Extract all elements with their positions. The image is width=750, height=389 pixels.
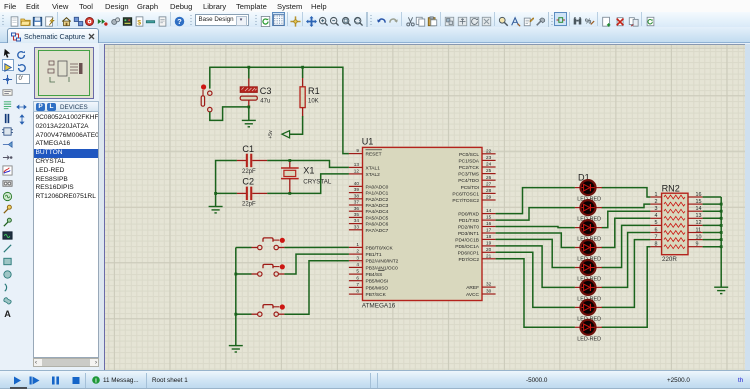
wire btn bus vertical: [235, 248, 237, 346]
tab bar: [0, 27, 750, 43]
svg-text:220R: 220R: [662, 256, 677, 263]
canvas right scrollbar: [745, 44, 750, 370]
LED D5 (LED-RED): [575, 260, 602, 275]
pin 25 PC3/TMS (right): [458, 168, 495, 177]
schematic drawing: [104, 44, 745, 369]
svg-text:32: 32: [486, 282, 492, 287]
pin 5 PB4/SS (left): [349, 269, 385, 278]
schematic canvas with grid: [104, 44, 745, 371]
svg-text:3: 3: [356, 255, 359, 260]
svg-text:16: 16: [696, 192, 702, 198]
wire D3-RN2.3: [602, 211, 651, 227]
pin 6 PB5/MOSI (left): [349, 275, 388, 284]
junction C3/button node: [247, 106, 250, 109]
wire D8-RN2.8: [602, 247, 651, 328]
LED D6 (LED-RED): [575, 280, 602, 295]
pin 38 PA2/ADC2 (left): [349, 193, 389, 202]
left panel background: [0, 44, 104, 370]
svg-text:23: 23: [486, 155, 492, 160]
wire PD5-D6: [496, 246, 575, 288]
pin 3 PB2/AIN0/INT2 (left): [349, 255, 399, 264]
svg-text:27: 27: [486, 181, 492, 186]
svg-text:PB6/MISO: PB6/MISO: [366, 285, 389, 291]
pin 19 PD5/OC1A (right): [455, 241, 495, 250]
svg-text:22pF: 22pF: [242, 169, 256, 175]
svg-text:?: ?: [177, 17, 182, 26]
pushbutton B3 (horizontal): [252, 304, 285, 316]
pin 24 PC2/TCK (right): [459, 162, 496, 171]
wire btn1 to PB0: [284, 246, 349, 248]
svg-text:AREF: AREF: [466, 285, 479, 291]
resistor R1 (10K): [300, 67, 305, 116]
sheet left edge: [104, 44, 105, 370]
wire D1-RN2.1: [602, 188, 651, 197]
svg-text:5: 5: [655, 220, 658, 226]
svg-text:33: 33: [354, 224, 360, 229]
capacitor C1 (22pF): [237, 154, 267, 168]
svg-text:40: 40: [354, 181, 360, 186]
junction X1 top node: [288, 159, 291, 162]
wire RN2.11 to bus: [703, 232, 722, 234]
LED D4 (LED-RED): [575, 240, 602, 255]
ground below C1/C2 bus: [209, 207, 223, 213]
wire btn3 to PB2: [284, 261, 349, 315]
capacitor C2 (22pF): [237, 187, 267, 201]
wire btn2 to PB1: [284, 254, 349, 274]
wire D5-RN2.5: [602, 225, 651, 267]
pushbutton B1 (horizontal): [252, 238, 285, 250]
svg-text:13: 13: [696, 213, 702, 219]
pin 20 PD6/ICP1 (right): [458, 247, 496, 256]
svg-text:12: 12: [696, 220, 702, 226]
svg-text:39: 39: [354, 187, 360, 192]
pushbutton (reset, vertical): [201, 84, 212, 111]
wire D4-RN2.4: [602, 218, 651, 247]
svg-text:29: 29: [486, 195, 492, 200]
wire top rail button/C3/R1 to RESET: [210, 67, 349, 153]
wire RN2.15 to bus: [703, 203, 722, 205]
svg-text:30: 30: [486, 289, 492, 294]
svg-text:1: 1: [356, 242, 359, 247]
pin 30 AVCC (right): [466, 289, 496, 298]
svg-text:2: 2: [655, 199, 658, 205]
RN2 resistor element pin 7/10: [650, 234, 702, 241]
svg-text:14: 14: [486, 208, 492, 213]
svg-text:$: $: [137, 19, 141, 26]
wire RN2.14 to bus: [703, 210, 722, 212]
svg-text:PB5/MOSI: PB5/MOSI: [366, 279, 389, 285]
svg-text:XTAL1: XTAL1: [366, 165, 381, 171]
svg-text:PC0/SCL: PC0/SCL: [459, 152, 479, 158]
wire PD6-D7: [496, 252, 575, 307]
pin 27 PC5/TDI (right): [461, 181, 496, 190]
pin 35 PA5/ADC5 (left): [349, 212, 389, 221]
svg-text:PC2/TCK: PC2/TCK: [459, 165, 480, 171]
RN2 resistor element pin 4/13: [650, 213, 702, 220]
wire PD0-D1: [496, 188, 575, 214]
splitter: [99, 44, 104, 370]
svg-text:X1: X1: [303, 166, 314, 176]
pin 7 PB6/MISO (left): [349, 282, 389, 291]
junction C3 top/rail: [247, 66, 250, 69]
capacitor C3 (electrolytic 47u): [240, 67, 257, 107]
RN2 resistor element pin 1/16: [650, 192, 702, 199]
svg-text:6: 6: [655, 227, 658, 233]
svg-text:8: 8: [356, 289, 359, 294]
wire C2 left stub: [216, 192, 237, 194]
wire PD2-D3: [496, 227, 575, 228]
svg-text:PA5/ADC5: PA5/ADC5: [366, 215, 389, 221]
svg-text:PD5/OC1A: PD5/OC1A: [455, 244, 480, 250]
pin 28 PC6/TOSC1 (right): [452, 188, 495, 197]
junction bus 211.2: [720, 210, 723, 213]
pin 16 PD2/INT0 (right): [458, 221, 496, 230]
svg-text:10: 10: [696, 234, 702, 240]
RN2 resistor element pin 5/12: [650, 220, 702, 227]
pushbutton B2 (horizontal): [252, 264, 285, 276]
pin 18 PD4/OC1B (right): [455, 234, 495, 243]
svg-text:12: 12: [354, 169, 360, 174]
devices scrollbar: [33, 358, 99, 367]
wire RN2.12 to bus: [703, 224, 722, 226]
RN2 resistor element pin 6/11: [650, 227, 702, 234]
junction bus 246.7: [720, 245, 723, 248]
svg-text:PC7/TOSC2: PC7/TOSC2: [452, 198, 479, 204]
power terminal +5v: [268, 130, 290, 139]
wire PD1-D2: [496, 208, 575, 221]
pin 36 PA4/ADC4 (left): [349, 206, 389, 215]
svg-text:PB2/AIN0/INT2: PB2/AIN0/INT2: [366, 259, 399, 265]
LED D7 (LED-RED): [575, 300, 602, 315]
svg-text:PD1/TXD: PD1/TXD: [459, 218, 480, 224]
pin 15 PD1/TXD (right): [459, 215, 496, 224]
pin 23 PC1/SDA (right): [458, 155, 495, 164]
svg-text:18: 18: [486, 234, 492, 239]
junction bus 239.6: [720, 238, 723, 241]
svg-text:10K: 10K: [308, 99, 319, 105]
junction bus/btn3: [234, 313, 237, 316]
wire D6-RN2.6: [602, 233, 651, 288]
status bar: [0, 370, 750, 389]
wire right ground bus: [720, 197, 722, 287]
pin 40 PA0/ADC0 (left): [349, 181, 389, 190]
pin 39 PA1/ADC1 (left): [349, 187, 389, 196]
svg-text:PB4/SS: PB4/SS: [366, 272, 383, 278]
svg-text:36: 36: [354, 206, 360, 211]
ground below buttons: [229, 346, 243, 352]
svg-text:PA0/ADC0: PA0/ADC0: [366, 184, 389, 190]
svg-text:19: 19: [486, 241, 492, 246]
wire button top lead: [209, 67, 211, 89]
pin 12 XTAL2 (left): [349, 169, 380, 178]
overview minimap: [34, 47, 95, 100]
devices header: [33, 101, 99, 113]
wire C1 left to bus: [216, 161, 237, 207]
svg-text:PD6/ICP1: PD6/ICP1: [458, 250, 480, 256]
pin 2 PB1/T1 (left): [349, 249, 382, 258]
svg-text:PA4/ADC4: PA4/ADC4: [366, 209, 389, 215]
svg-text:PD3/INT1: PD3/INT1: [458, 231, 479, 237]
svg-text:9: 9: [696, 242, 699, 248]
pin 34 PA6/ADC6 (left): [349, 218, 389, 227]
svg-text:26: 26: [486, 175, 492, 180]
svg-text:PB1/T1: PB1/T1: [366, 252, 382, 258]
svg-text:38: 38: [354, 193, 360, 198]
svg-text:PD7/OC2: PD7/OC2: [458, 257, 479, 263]
svg-text:C3: C3: [260, 86, 272, 96]
wire btn2 left: [236, 273, 252, 275]
svg-text:PC1/SDA: PC1/SDA: [458, 158, 479, 164]
svg-text:PB7/SCK: PB7/SCK: [366, 292, 387, 298]
svg-text:4: 4: [655, 213, 658, 219]
svg-text:PD2/INT0: PD2/INT0: [458, 225, 479, 231]
svg-text:RN2: RN2: [662, 183, 680, 193]
svg-text:24: 24: [486, 162, 492, 167]
svg-text:8: 8: [655, 242, 658, 248]
pin 21 PD7/OC2 (right): [458, 253, 495, 262]
svg-text:2: 2: [356, 249, 359, 254]
LED D1 (LED-RED): [575, 180, 602, 195]
svg-text:20: 20: [486, 247, 492, 252]
svg-text:A: A: [4, 309, 11, 319]
pin 26 PC4/TDO (right): [458, 175, 495, 184]
wire RN2.10 to bus: [703, 239, 722, 241]
junction X1 bottom node: [288, 192, 291, 195]
svg-text:7: 7: [356, 282, 359, 287]
svg-text:21: 21: [486, 253, 492, 258]
svg-text:5: 5: [356, 269, 359, 274]
svg-text:4: 4: [356, 262, 359, 267]
svg-text:9: 9: [356, 148, 359, 153]
svg-text:35: 35: [354, 212, 360, 217]
junction bus/btn2: [234, 273, 237, 276]
svg-text:15: 15: [696, 199, 702, 205]
svg-text:C1: C1: [242, 144, 254, 154]
svg-text:1: 1: [655, 192, 658, 198]
wire D2-RN2.2: [602, 204, 651, 208]
wire PD4-D5: [496, 239, 575, 267]
wire RN2.16 to bus: [703, 196, 722, 198]
wire PD7-D8: [496, 259, 575, 328]
pin 22 PC0/SCL (right): [459, 148, 496, 157]
svg-text:R1: R1: [308, 86, 320, 96]
junction bus 232.5: [720, 231, 723, 234]
devices list: [33, 112, 99, 358]
svg-text:34: 34: [354, 218, 360, 223]
RN2 resistor element pin 2/15: [650, 199, 702, 206]
pin 9 RESET (left): [349, 148, 382, 157]
junction bus 218.3: [720, 217, 723, 220]
svg-text:PA2/ADC2: PA2/ADC2: [366, 197, 389, 203]
wire R1 bottom to +5v terminal: [289, 116, 303, 134]
svg-text:11: 11: [696, 227, 702, 233]
svg-text:C2: C2: [242, 177, 254, 187]
pin 8 PB7/SCK (left): [349, 289, 387, 298]
svg-text:+5v: +5v: [268, 130, 274, 139]
pin 29 PC7/TOSC2 (right): [452, 195, 495, 204]
svg-text:14: 14: [696, 206, 702, 212]
wire PD3-D4: [496, 233, 575, 248]
wire btn1 left: [236, 247, 252, 249]
svg-text:7: 7: [655, 234, 658, 240]
LED D3 (LED-RED): [575, 220, 602, 235]
pin 17 PD3/INT1 (right): [458, 228, 496, 237]
wire RN2.13 to bus: [703, 217, 722, 219]
pin 4 PB3/AIN1/OC0 (left): [349, 262, 398, 271]
svg-text:AVCC: AVCC: [466, 292, 480, 298]
junction bus 204.1: [720, 203, 723, 206]
main toolbar: [0, 12, 750, 28]
wire RN2.9 to bus: [703, 246, 722, 248]
junction bus 225.4: [720, 224, 723, 227]
svg-text:ATMEGA16: ATMEGA16: [362, 303, 396, 310]
menu bar: [0, 0, 750, 13]
junction bus/C2 node: [214, 192, 217, 195]
resistor network RN2 body: [662, 193, 688, 255]
wire button bottom to C3 bottom node: [210, 107, 249, 121]
crystal X1: [281, 161, 299, 194]
svg-text:PA6/ADC6: PA6/ADC6: [366, 222, 389, 228]
wire C1 to XTAL1: [267, 161, 349, 168]
svg-text:PA1/ADC1: PA1/ADC1: [366, 191, 389, 197]
svg-text:PD4/OC1B: PD4/OC1B: [455, 237, 479, 243]
LED D8 (LED-RED): [575, 320, 602, 335]
pin 37 PA3/ADC3 (left): [349, 200, 389, 209]
wire C3 bottom to ground: [248, 107, 250, 121]
svg-text:PB0/T0/XCK: PB0/T0/XCK: [366, 245, 394, 251]
svg-text:PC5/TDI: PC5/TDI: [461, 185, 479, 191]
svg-text:15: 15: [486, 215, 492, 220]
svg-text:RESET: RESET: [366, 152, 382, 158]
svg-text:PA3/ADC3: PA3/ADC3: [366, 203, 389, 209]
svg-text:22pF: 22pF: [242, 202, 256, 208]
left mode toolbar column: [2, 46, 14, 58]
svg-text:CRYSTAL: CRYSTAL: [303, 178, 332, 185]
junction R1 top/rail: [301, 66, 304, 69]
svg-text:PD0/RXD: PD0/RXD: [458, 212, 479, 218]
svg-text:PC6/TOSC1: PC6/TOSC1: [452, 191, 479, 197]
svg-text:6: 6: [356, 275, 359, 280]
svg-text:28: 28: [486, 188, 492, 193]
svg-text:47u: 47u: [260, 99, 270, 105]
svg-text:LED-RED: LED-RED: [577, 336, 601, 342]
ground below C3: [242, 120, 256, 126]
svg-text:17: 17: [486, 228, 492, 233]
pin 13 XTAL1 (left): [349, 162, 380, 171]
wire btn3 left: [236, 313, 252, 315]
pin 1 PB0/T0/XCK (left): [349, 242, 394, 251]
svg-text:37: 37: [354, 200, 360, 205]
svg-text:XTAL2: XTAL2: [366, 172, 381, 178]
pin 33 PA7/ADC7 (left): [349, 224, 389, 233]
svg-text:PA7/ADC7: PA7/ADC7: [366, 228, 389, 234]
pin 32 AREF (right): [466, 282, 495, 291]
svg-text:PC3/TMS: PC3/TMS: [458, 172, 479, 178]
RN2 resistor element pin 8/9: [650, 242, 702, 249]
RN2 resistor element pin 3/14: [650, 206, 702, 213]
svg-text:25: 25: [486, 168, 492, 173]
wire C2 to XTAL2: [267, 174, 349, 194]
svg-text:U1: U1: [362, 137, 374, 147]
svg-text:3: 3: [655, 206, 658, 212]
wire D7-RN2.7: [602, 240, 651, 308]
ground right bus: [714, 287, 728, 293]
pin 14 PD0/RXD (right): [458, 208, 495, 217]
svg-text:PC4/TDO: PC4/TDO: [458, 178, 479, 184]
LED D2 (LED-RED): [575, 200, 602, 215]
op IC U1 ATMEGA16 body: [363, 147, 483, 300]
svg-text:13: 13: [354, 162, 360, 167]
svg-text:16: 16: [486, 221, 492, 226]
svg-text:22: 22: [486, 148, 492, 153]
orientation toolbar column: [16, 47, 27, 65]
